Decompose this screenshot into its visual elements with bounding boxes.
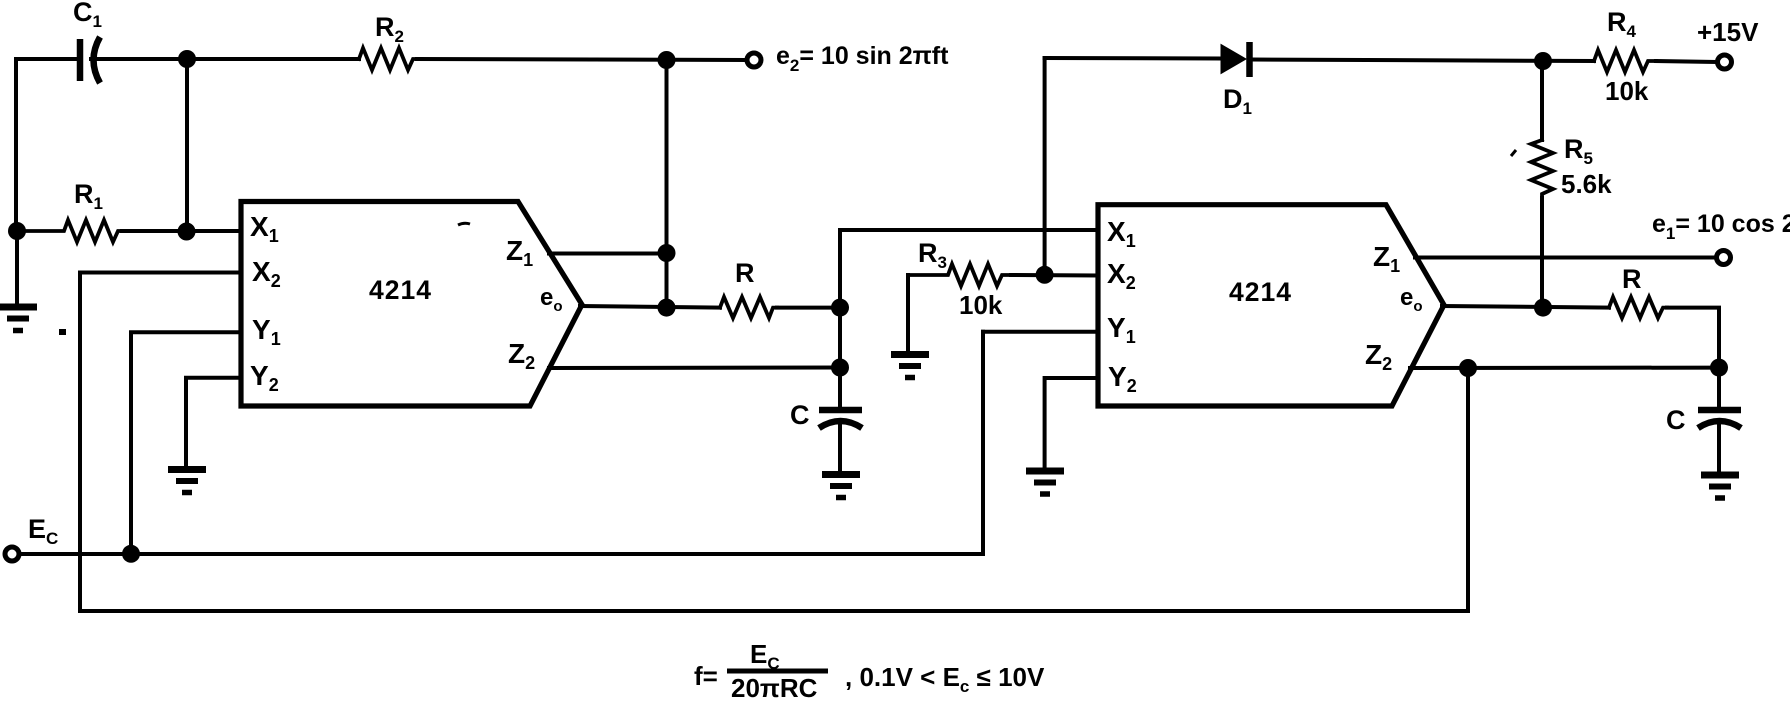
wire Z2 of U2 to C node xyxy=(1410,366,1719,370)
junction node e2 branch xyxy=(658,51,676,69)
wire eo of U1 to R xyxy=(580,306,720,308)
svg-text:, 0.1V < Ec ≤ 10V: , 0.1V < Ec ≤ 10V xyxy=(845,662,1045,696)
junction node R4/R5 xyxy=(1534,52,1552,70)
capacitor C1 xyxy=(80,37,100,83)
terminal e1 xyxy=(1717,251,1731,265)
wire RC node down to C node xyxy=(838,308,842,368)
wire Z1 of U1 to junction xyxy=(549,252,667,256)
junction node R1 left xyxy=(8,222,26,240)
svg-text:+15V: +15V xyxy=(1697,17,1759,47)
wire left vertical x=16 from top wire to R1 xyxy=(14,59,18,231)
wire Z2 of U1 to C node xyxy=(549,366,840,371)
wire Y1 to Ec line xyxy=(131,332,241,554)
wire Z1 of U2 to e1 terminal xyxy=(1415,256,1714,260)
wire Y1 of U2 from Ec riser xyxy=(983,330,1098,334)
wire capacitor to ground xyxy=(838,424,842,471)
wire R2 to e2 terminal xyxy=(417,59,745,60)
wire X2 feedback left xyxy=(80,273,241,612)
wire vertical x=187 from top wire to R1 node xyxy=(185,59,189,232)
op-amp multiplier U1 4214 body xyxy=(241,202,582,407)
ground G6 xyxy=(1701,475,1739,498)
wire C1 to R2 xyxy=(91,57,359,61)
stray mark xyxy=(458,223,470,225)
junction node R3/D1 branch xyxy=(1036,266,1054,284)
wire R3 to X2 of U2 xyxy=(1011,273,1098,278)
wire C node to capacitor xyxy=(838,368,842,408)
resistor R5 xyxy=(1531,140,1553,198)
capacitor C (first) xyxy=(819,410,862,428)
wire R5 top stub xyxy=(1540,61,1544,140)
svg-text:R: R xyxy=(1622,264,1642,294)
wire top-left horizontal from corner to C1 xyxy=(16,57,77,61)
svg-text:4214: 4214 xyxy=(1229,277,1292,307)
wire C node to capacitor second xyxy=(1717,368,1721,407)
junction node Y1/Ec xyxy=(122,545,140,563)
wire ground stub left xyxy=(15,231,19,305)
ground G1 xyxy=(0,307,37,331)
terminal e2 xyxy=(747,53,761,67)
junction node Z2 feedback xyxy=(1459,359,1477,377)
wire D1 cathode to +15V node xyxy=(1252,60,1594,62)
resistor R1 xyxy=(17,220,122,242)
resistor R (first) xyxy=(720,297,777,318)
junction node C top xyxy=(831,359,849,377)
svg-text:C: C xyxy=(1666,405,1686,435)
stray dot mark xyxy=(59,329,66,335)
resistor R2 xyxy=(359,48,417,70)
svg-text:4214: 4214 xyxy=(369,275,432,305)
wire bottom feedback to Z2 node of U2 xyxy=(80,368,1468,611)
wire R1 to X1 pin xyxy=(122,229,241,233)
ground G2 xyxy=(168,470,206,493)
junction node C1/R2/R1 vertical xyxy=(178,50,196,68)
wire D1 anode horizontal xyxy=(1045,56,1221,61)
junction node Z1/e2 vertical xyxy=(658,244,676,262)
svg-text:10k: 10k xyxy=(1605,76,1649,106)
wire R3 left ground stub xyxy=(906,275,910,352)
wire Ec line xyxy=(20,332,983,554)
svg-text:20πRC: 20πRC xyxy=(731,673,818,702)
stray mark xyxy=(1511,150,1516,156)
svg-text:10k: 10k xyxy=(959,290,1003,320)
ground G3 xyxy=(822,475,860,498)
junction node RC top xyxy=(831,299,849,317)
resistor R4 xyxy=(1594,50,1656,72)
terminal Ec xyxy=(5,547,19,561)
resistor R (second) xyxy=(1609,297,1667,318)
diode D1 xyxy=(1221,42,1250,77)
resistor R3 xyxy=(908,264,1011,286)
wire capacitor second to ground xyxy=(1717,424,1721,472)
junction node X1/C1 branch xyxy=(178,223,196,241)
wire R5 bottom to eo node of U2 xyxy=(1540,198,1544,308)
wire vertical D1 branch down to X2 node xyxy=(1043,58,1047,275)
svg-text:f=: f= xyxy=(694,661,718,691)
wire RC node up and right to X1 of U2 xyxy=(840,230,1098,308)
op-amp multiplier U2 4214 body xyxy=(1098,205,1444,406)
wire Y2 ground stub xyxy=(186,378,241,467)
junction node eo U2 / R5 xyxy=(1534,299,1552,317)
capacitor C (second) xyxy=(1698,410,1741,428)
wire R4 to +15V terminal xyxy=(1656,61,1715,62)
junction node eo of U1 xyxy=(658,299,676,317)
wire Y2 of U2 ground stub xyxy=(1045,378,1098,468)
svg-text:R: R xyxy=(735,258,755,288)
svg-text:5.6k: 5.6k xyxy=(1561,169,1612,199)
ground G5 xyxy=(1026,471,1064,494)
formula f = Ec / 20piRC , 0.1V < Ec <= 10V xyxy=(694,639,1045,702)
wire R to RC node xyxy=(777,306,840,310)
ground G4 xyxy=(891,355,929,378)
svg-text:C: C xyxy=(790,400,810,430)
terminal +15V xyxy=(1718,55,1732,69)
junction node C2 top xyxy=(1710,359,1728,377)
wire R second to C node xyxy=(1667,308,1719,368)
wire eo of U2 to R node xyxy=(1442,306,1609,308)
wire vertical x=666.5 e2 node to eo node xyxy=(665,60,669,308)
